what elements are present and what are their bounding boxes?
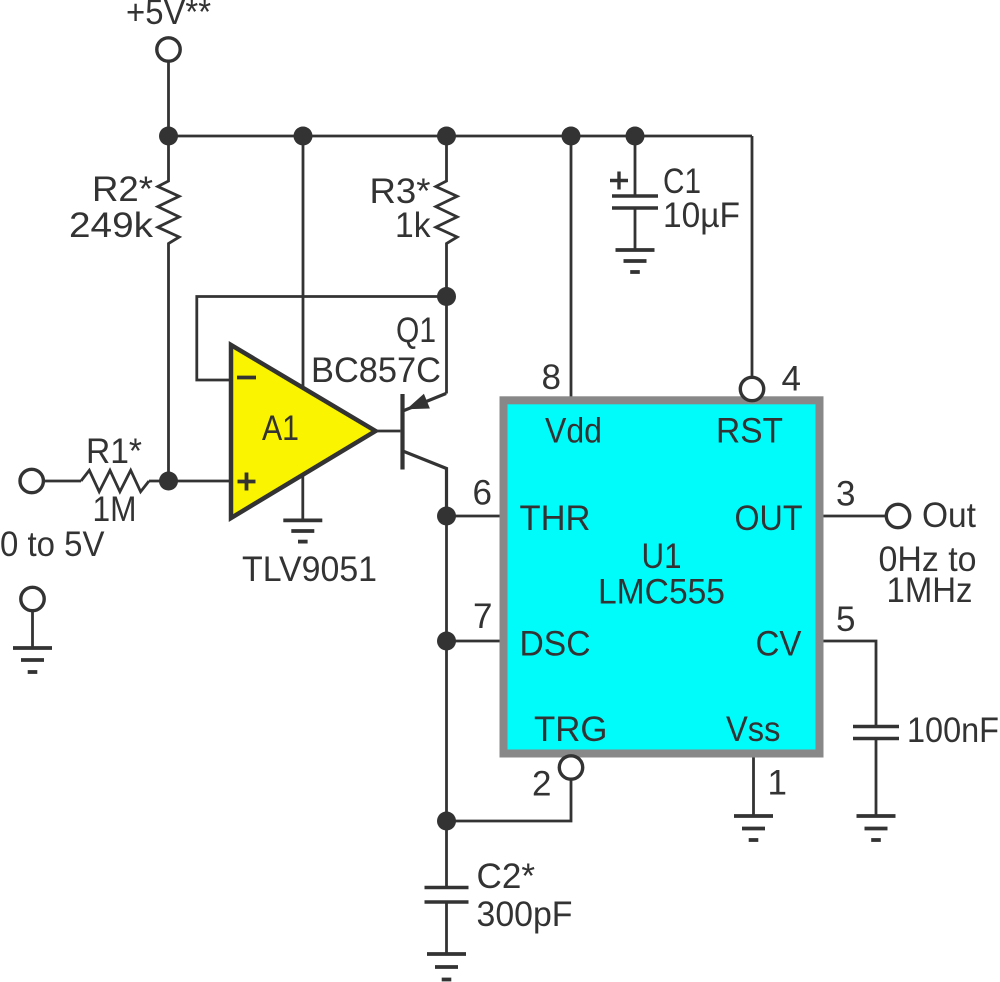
ground below op-amp	[283, 520, 322, 541]
wire collector node down chain	[445, 516, 448, 641]
svg-text:THR: THR	[520, 499, 591, 538]
ground input reference	[13, 648, 52, 672]
svg-text:1M: 1M	[93, 490, 137, 529]
transistor Q1 emitter diagonal	[404, 394, 447, 411]
wire feedback: minus input to R3/Q1 node	[197, 297, 447, 381]
resistor R3	[436, 136, 457, 297]
resistor R1	[81, 470, 149, 491]
node RST pin-4 terminal	[740, 377, 763, 400]
node input terminal	[20, 469, 43, 492]
svg-text:CV: CV	[756, 625, 803, 664]
op-amp ground stem	[301, 474, 304, 520]
svg-text:A1: A1	[262, 409, 299, 448]
ground below C1	[616, 250, 655, 272]
svg-text:8: 8	[542, 358, 561, 397]
svg-text:LMC555: LMC555	[598, 573, 725, 612]
wire DSC pin 7	[447, 640, 504, 643]
svg-text:3: 3	[836, 475, 855, 514]
node R3 / feedback / emitter junction	[437, 287, 456, 306]
ground below C2	[427, 954, 466, 980]
wire C1 to ground	[634, 208, 637, 250]
node DSC junction	[437, 632, 456, 651]
wire +5V horizontal bus	[169, 135, 753, 138]
svg-text:100nF: 100nF	[907, 711, 999, 750]
wire THR pin 6	[447, 515, 504, 518]
node TRG pin-2 terminal	[559, 756, 582, 779]
svg-text:249k: 249k	[69, 206, 154, 245]
svg-text:1k: 1k	[395, 206, 431, 245]
svg-text:Vdd: Vdd	[545, 412, 602, 451]
node input ground terminal	[21, 587, 44, 610]
op-amp U1 A1 triangle	[231, 345, 376, 518]
wire 100nF to ground	[875, 739, 878, 817]
svg-text:Vss: Vss	[726, 710, 781, 749]
wire Vss pin 1 to ground	[752, 758, 755, 817]
node bus junction at C1	[626, 127, 645, 146]
svg-text:7: 7	[473, 597, 492, 636]
node Out terminal	[886, 504, 909, 527]
wire C1 from bus	[634, 136, 637, 196]
wire A1 supply from bus	[302, 136, 305, 388]
svg-text:4: 4	[782, 360, 801, 399]
svg-text:10µF: 10µF	[663, 196, 740, 235]
ground below 100nF	[857, 816, 896, 840]
wire CV pin 5 to 100nF	[824, 641, 877, 725]
svg-text:BC857C: BC857C	[311, 351, 441, 390]
transistor Q1 collector diagonal	[404, 452, 447, 517]
node THR junction	[437, 507, 456, 526]
svg-text:0 to 5V: 0 to 5V	[0, 525, 105, 564]
wire C2 to ground	[445, 902, 448, 954]
wire A1 output to Q1 base	[376, 430, 401, 433]
svg-text:R2*: R2*	[92, 170, 153, 209]
svg-text:OUT: OUT	[735, 499, 803, 538]
transistor Q1 emitter arrow	[407, 394, 430, 410]
node bus junction at Vdd	[562, 127, 581, 146]
wire R1 to +input	[149, 480, 231, 483]
svg-text:DSC: DSC	[520, 625, 591, 664]
wire TRG pin 2 to C2 node	[447, 779, 572, 821]
wire R3 bottom to emitter node	[445, 297, 448, 394]
capacitor C1 plus symbol	[610, 172, 628, 190]
node +5V supply terminal	[157, 38, 180, 61]
IC U1 LMC555 body	[504, 400, 820, 753]
wire TRG node to C2	[445, 821, 448, 886]
wire OUT pin 3 to Out terminal	[824, 515, 887, 518]
capacitor 100nF plates	[853, 727, 899, 739]
wire DSC node down to TRG node	[445, 641, 448, 821]
node bus junction at R3	[437, 127, 456, 146]
transistor Q1 base bar	[400, 394, 404, 470]
svg-text:6: 6	[473, 474, 492, 513]
wire R2 bottom to +input node	[167, 296, 170, 481]
wire input terminal to R1	[44, 480, 82, 483]
svg-text:RST: RST	[716, 412, 783, 451]
wire Vdd pin 8 from bus	[570, 136, 573, 400]
svg-text:TLV9051: TLV9051	[242, 550, 377, 589]
svg-text:R1*: R1*	[86, 432, 142, 471]
svg-text:C2*: C2*	[477, 857, 536, 896]
svg-text:2: 2	[532, 765, 551, 804]
svg-text:+5V**: +5V**	[126, 0, 211, 32]
svg-text:U1: U1	[642, 537, 682, 576]
svg-text:Q1: Q1	[396, 311, 436, 350]
node bus junction at R2	[159, 127, 178, 146]
svg-text:Out: Out	[922, 496, 976, 535]
node bus junction at A1 supply	[294, 127, 313, 146]
wire +5V terminal to bus	[167, 62, 170, 137]
svg-text:5: 5	[836, 600, 855, 639]
node TRG / C2 junction	[437, 812, 456, 831]
svg-text:1: 1	[768, 764, 787, 803]
capacitor C1 plates	[612, 196, 658, 208]
svg-text:1MHz: 1MHz	[887, 571, 973, 610]
resistor R2	[158, 136, 179, 296]
svg-text:300pF: 300pF	[477, 895, 573, 934]
ground below Vss	[734, 816, 773, 840]
svg-text:TRG: TRG	[534, 710, 608, 749]
capacitor C2 plates	[425, 888, 469, 903]
wire bus right end down to RST pin 4	[751, 136, 754, 378]
op-amp plus input symbol	[238, 473, 256, 491]
wire input ground stem	[31, 611, 34, 648]
node R1 / +input junction	[159, 472, 178, 491]
op-amp minus input symbol	[237, 376, 256, 380]
